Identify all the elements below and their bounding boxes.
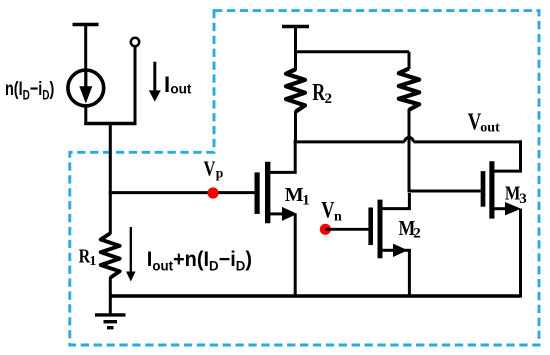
wire: current source bottom (84, 106, 87, 126)
svg-text:3: 3 (519, 191, 527, 207)
svg-text:I: I (164, 72, 170, 97)
transistor M2 (368, 208, 373, 246)
resistor R2 (294, 52, 297, 71)
wire: bottom rail (110, 294, 520, 297)
svg-text:1: 1 (302, 193, 310, 209)
wire: M3 gate line (408, 190, 481, 193)
transistor M3 (481, 171, 486, 207)
wire: supply to current source (84, 25, 87, 71)
Iout arrow (top) (153, 62, 156, 93)
svg-text:2: 2 (325, 91, 333, 107)
wire: terminal vertical (134, 47, 137, 125)
svg-text:M: M (505, 182, 520, 204)
svg-text:n: n (334, 209, 342, 224)
resistor R1 (109, 193, 112, 234)
wire: M1 gate line (109, 191, 255, 194)
wire hop over vertical (405, 137, 414, 141)
wire: down from source branch to Vp node (109, 124, 112, 195)
wire: right resistor to M3 gate node (408, 109, 411, 192)
label Iout (top) (164, 72, 192, 97)
ground (95, 313, 126, 316)
current source arrow (84, 70, 87, 88)
open terminal circle (131, 38, 139, 46)
current source I1 circle (68, 70, 104, 106)
node Vp red dot (207, 187, 218, 198)
svg-text:2: 2 (413, 225, 421, 241)
wire: Vout rail left segment (294, 140, 405, 143)
resistor R3 (unlabeled, right) (408, 52, 411, 69)
label Iout+n(ID-iD) (147, 248, 252, 274)
svg-text:out: out (170, 81, 191, 96)
svg-text:M: M (285, 184, 304, 206)
supply bar (top-middle) (282, 25, 309, 29)
transistor M1 (255, 172, 260, 214)
wire: supply to top rail (294, 27, 297, 54)
svg-text:V: V (204, 157, 216, 180)
supply bar (top-left) (73, 23, 99, 27)
wire: M2 gate line (325, 228, 368, 231)
svg-text:1: 1 (89, 254, 96, 269)
label n(ID-iD) (5, 77, 54, 103)
node Vn red dot (320, 224, 331, 235)
wire: bottom horizontal of source branch (84, 122, 136, 125)
svg-text:p: p (216, 166, 224, 181)
wire: top rail (296, 50, 410, 53)
wire: Vout rail right segment (413, 140, 522, 143)
current arrow beside R1 (130, 227, 132, 274)
svg-text:V: V (321, 196, 334, 223)
svg-text:out: out (480, 121, 500, 136)
